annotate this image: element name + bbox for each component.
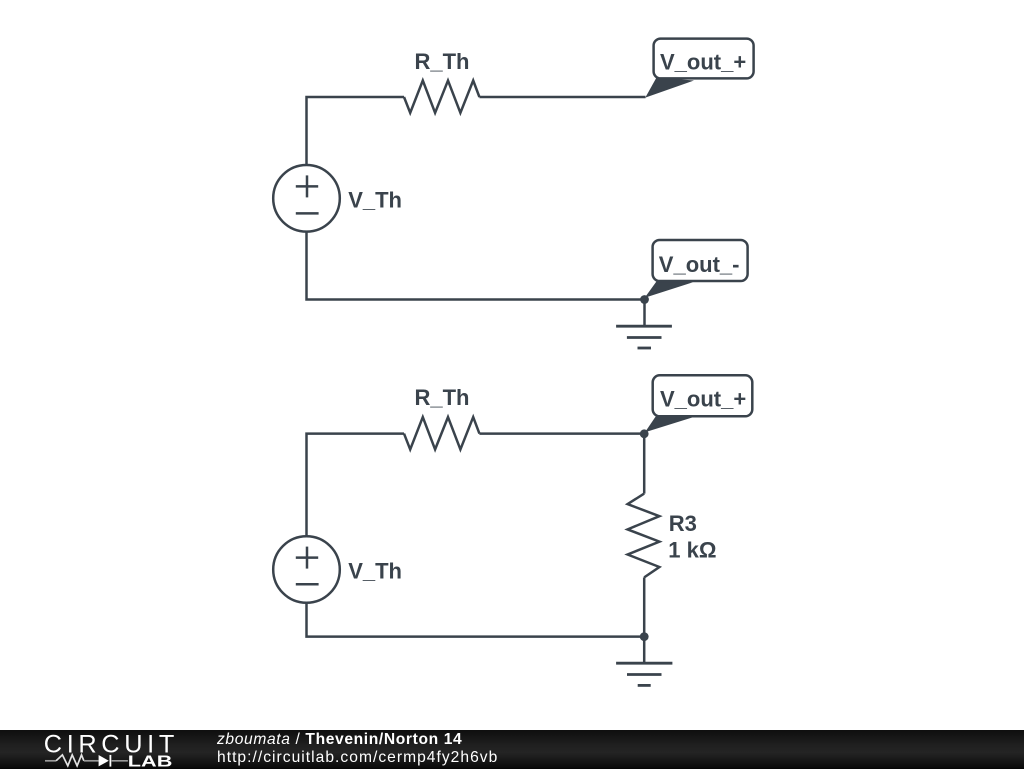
ground (circuit 2) — [616, 637, 672, 686]
wire top-left + left vertical upper (circuit 1) — [307, 97, 405, 165]
resistor R_Th (circuit 1) — [404, 81, 479, 113]
flag V_out_- (circuit 1) — [645, 240, 748, 298]
voltage source V_Th (circuit 2) — [273, 536, 340, 603]
svg-text:V_out_-: V_out_- — [659, 252, 740, 277]
svg-text:R_Th: R_Th — [415, 385, 470, 410]
flag V_out_+ (circuit 2) — [645, 375, 752, 432]
flag V_out_+ (circuit 1) — [645, 39, 753, 98]
resistor R3 — [628, 494, 660, 578]
voltage source V_Th (circuit 1) — [273, 165, 340, 232]
CircuitLab logo wordmark CIRCUIT — [0, 730, 200, 769]
wire left vertical lower + bottom horizontal (circuit 2) — [307, 603, 645, 637]
svg-text:1 kΩ: 1 kΩ — [668, 537, 716, 562]
resistor R3 upper lead wire — [643, 434, 646, 494]
wire top-left + left vertical upper (circuit 2) — [307, 434, 405, 537]
node dot (circuit 1, ground node) — [640, 295, 649, 304]
footer url line — [217, 749, 498, 767]
resistor R3 lower lead wire — [643, 577, 646, 636]
node B bottom (circuit 2, ground node) — [640, 632, 649, 641]
svg-text:V_Th: V_Th — [348, 559, 402, 584]
svg-text:R_Th: R_Th — [415, 49, 470, 74]
wire top-right horizontal (circuit 1) — [479, 96, 645, 99]
svg-text:V_out_+: V_out_+ — [660, 50, 746, 75]
node A top (circuit 2, V_out node) — [640, 429, 649, 438]
svg-text:V_out_+: V_out_+ — [660, 387, 746, 412]
wire left vertical lower + bottom horizontal (circuit 1) — [307, 231, 645, 299]
svg-text:V_Th: V_Th — [348, 187, 402, 212]
ground (circuit 1) — [616, 300, 672, 349]
logo diode triangle — [99, 755, 109, 766]
svg-text:R3: R3 — [669, 511, 697, 536]
logo resistor-diode glyph — [45, 754, 128, 766]
svg-text:LAB: LAB — [128, 753, 173, 768]
footer title line — [217, 731, 462, 749]
wire top-right horizontal (circuit 2) — [479, 432, 644, 435]
resistor R_Th (circuit 2) — [404, 417, 479, 449]
